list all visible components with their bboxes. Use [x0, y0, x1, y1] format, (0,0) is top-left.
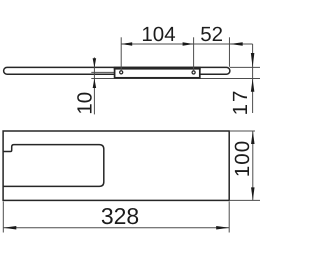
rail top thick band	[114, 67, 201, 70]
screw hole left	[120, 71, 123, 74]
extension line rail top (10 dim)	[91, 71, 114, 73]
arrow up to rail bottom right	[251, 79, 255, 92]
svg-text:10: 10	[74, 92, 97, 115]
svg-text:104: 104	[141, 23, 175, 46]
svg-text:328: 328	[101, 203, 139, 229]
arrow right of 104	[183, 42, 194, 46]
arrow up to rail bottom	[93, 78, 97, 88]
arrow down to shelf top right	[251, 53, 255, 68]
dimension line 104/52	[121, 43, 252, 45]
arrow up at plate top	[251, 131, 255, 144]
extension line at left screw	[120, 37, 122, 70]
extension line at bar right end	[228, 37, 230, 67]
shelf bar (front view)	[4, 67, 230, 74]
arrow left of 104	[121, 42, 132, 46]
extension line shelf top right (17 dim)	[230, 66, 260, 68]
arrow left of 328	[3, 226, 16, 230]
extension line 328 right	[228, 202, 230, 233]
dimension line 10 (vertical)	[93, 57, 95, 114]
dimension line 328	[3, 227, 229, 229]
svg-text:52: 52	[200, 23, 223, 46]
arrow outside right of 52	[230, 42, 243, 46]
dimension line 100 (vertical)	[252, 131, 254, 200]
extension line 328 left	[2, 202, 4, 233]
svg-text:100: 100	[231, 140, 254, 177]
screw hole right	[192, 71, 195, 74]
extension line plate bottom right (100 dim)	[229, 199, 260, 201]
extension line rail bottom (10/17 dims)	[91, 77, 260, 79]
extension line at right screw	[193, 37, 195, 70]
arrow right of 328	[216, 226, 229, 230]
arrow down at plate bottom	[251, 187, 255, 200]
mounting rail bracket	[115, 68, 200, 78]
extension line plate top right (100 dim)	[229, 130, 255, 132]
dimension line 17 (vertical)	[252, 44, 254, 113]
rail recess step contour	[3, 145, 104, 187]
arrow down to shelf top	[93, 58, 97, 67]
shelf plate (top view) outer rectangle	[3, 131, 229, 200]
svg-text:17: 17	[229, 89, 252, 116]
